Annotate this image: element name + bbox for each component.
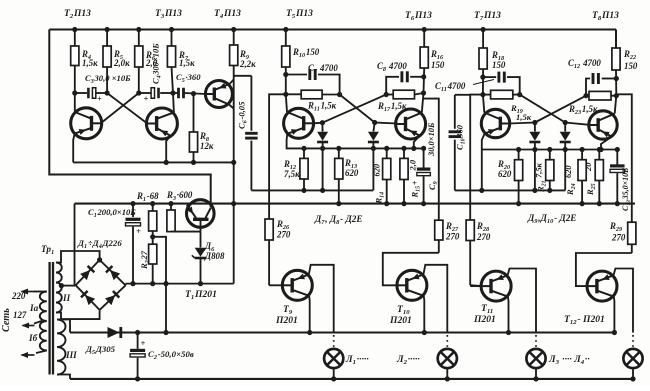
capacitor C13	[616, 150, 618, 165]
transistor T4	[205, 81, 232, 108]
svg-text:20: 20	[583, 162, 593, 172]
capacitor C10 coupling	[454, 95, 456, 129]
zener D6	[200, 232, 202, 248]
svg-text:П201: П201	[473, 314, 496, 325]
resistor R9	[233, 30, 235, 46]
svg-text:2,0: 2,0	[408, 159, 418, 171]
wire stage2 output left to R28	[470, 95, 483, 220]
capacitor C4	[151, 88, 154, 99]
resistor R3	[170, 204, 172, 210]
resistor R4	[74, 30, 76, 47]
wire tap Ib bottom	[36, 351, 47, 354]
svg-text:2,2к: 2,2к	[239, 59, 256, 69]
resistor R8	[193, 94, 195, 132]
wire T4 collector join	[229, 105, 234, 109]
wire T7 base	[509, 123, 535, 124]
transistor T9	[282, 270, 312, 300]
svg-text:+: +	[141, 338, 146, 348]
capacitor C8	[410, 76, 424, 78]
wire T5 emitter down and stage line	[287, 134, 424, 149]
wire T3 emitter down	[166, 136, 170, 163]
wire stub to C6	[234, 75, 252, 77]
resistor R2	[152, 237, 154, 244]
resistor R23	[586, 95, 589, 97]
wire II mid tap to bridge left corner	[61, 285, 76, 287]
svg-text:Т8 П13: Т8 П13	[592, 11, 619, 22]
svg-text:Сеть: Сеть	[1, 308, 12, 332]
wire base tee to R3	[171, 231, 201, 233]
svg-text:+: +	[144, 94, 149, 104]
wire upper bus stage2	[455, 189, 565, 191]
svg-text:2,0к: 2,0к	[113, 58, 130, 68]
svg-text:Т2 П13: Т2 П13	[64, 9, 91, 20]
wire T4 emitter join	[230, 80, 234, 85]
wire T3 base cross to R5 node	[107, 93, 147, 123]
wire T2 collector up	[74, 93, 76, 113]
winding III	[57, 320, 66, 375]
lamp L1	[333, 335, 335, 348]
resistor R27	[435, 220, 443, 240]
wire stage2 emitter line	[482, 149, 618, 151]
svg-text:270: 270	[611, 233, 626, 243]
lamp L2	[446, 335, 448, 348]
diode D7	[321, 123, 323, 132]
svg-text:Л1 ·····: Л1 ·····	[345, 354, 369, 366]
wire C4 left	[139, 92, 151, 94]
svg-text:12к: 12к	[200, 141, 214, 151]
wire R1R2 junction over to lamp rail column	[153, 237, 166, 333]
capacitor C1	[132, 204, 134, 217]
transistor T5	[284, 108, 314, 138]
resistor R18	[482, 30, 484, 49]
svg-text:Т6 П13: Т6 П13	[405, 11, 432, 22]
wire T6 base	[375, 123, 398, 124]
diode D5 in series	[108, 327, 120, 338]
capacitor C2	[137, 333, 139, 349]
svg-text:7,5к: 7,5к	[284, 169, 300, 179]
wire III top to lamp rail	[57, 320, 70, 333]
resistor R15	[403, 148, 405, 158]
wire T10 base jog from R27	[383, 253, 439, 285]
wire T6 emitter down	[414, 136, 420, 149]
resistor R13	[338, 148, 340, 158]
svg-text:Т4 П13: Т4 П13	[214, 9, 241, 20]
wire cross R23 to T7 base	[535, 96, 586, 123]
transistor T12	[587, 271, 617, 301]
wire cross R17 to T5 base	[322, 95, 386, 123]
diode D1	[80, 266, 94, 280]
svg-text:Л3 ···· Л4 ··: Л3 ···· Л4 ··	[548, 354, 590, 366]
svg-text:620: 620	[345, 168, 359, 178]
wire C5 to T4 base	[185, 93, 206, 94]
wire cross R19 to T8 base	[520, 95, 566, 123]
diode D4	[105, 291, 119, 305]
wire C10 top to stage2 node	[455, 94, 470, 96]
svg-text:Т7 П13: Т7 П13	[474, 11, 501, 22]
capacitor C9	[423, 148, 425, 168]
svg-text:150: 150	[431, 60, 445, 70]
wire II top to bridge top corner	[56, 251, 100, 263]
wire multivib top node wire	[75, 92, 87, 94]
wire tap 127	[34, 321, 42, 324]
wire T7 collector up	[483, 95, 484, 113]
transistor T6	[396, 109, 426, 139]
svg-text:270: 270	[476, 232, 491, 242]
svg-text:1,5к: 1,5к	[516, 112, 532, 122]
wire bottom rail	[70, 378, 635, 380]
resistor R11	[286, 93, 301, 95]
svg-text:270: 270	[276, 230, 291, 240]
wire stage2 output right to R29	[616, 94, 632, 222]
svg-text:П201: П201	[275, 315, 298, 326]
resistor R26	[265, 219, 273, 240]
wire II bottom to bridge bottom corner	[56, 310, 100, 319]
wire lamp rail	[70, 331, 615, 333]
resistor R22	[612, 48, 620, 70]
wire T11 base	[470, 284, 481, 287]
svg-text:1,5к: 1,5к	[179, 58, 195, 68]
svg-text:+: +	[136, 226, 141, 236]
svg-text:Iа: Iа	[29, 303, 39, 313]
wire T2 emitter down	[73, 134, 74, 163]
svg-text:II: II	[62, 293, 71, 303]
wire III bottom to bottom rail	[57, 375, 70, 379]
diode D8	[373, 123, 374, 132]
svg-text:220: 220	[11, 291, 26, 301]
wire emitter bus	[73, 161, 234, 163]
svg-text:П201: П201	[389, 315, 412, 326]
wire T8 collector up	[615, 96, 617, 114]
resistor R19	[483, 94, 491, 96]
transistor T10	[397, 270, 427, 300]
svg-text:Л2 ·····: Л2 ·····	[396, 354, 420, 366]
wire cross R11 to T6 base	[340, 95, 375, 123]
capacitor C3	[87, 88, 90, 99]
winding II	[56, 263, 62, 313]
capacitor C7	[286, 74, 307, 76]
capacitor C5	[173, 92, 178, 94]
bridge rectifier D1-D4	[76, 260, 100, 285]
transistor T11	[481, 271, 511, 301]
capacitor C12	[602, 78, 617, 80]
wire T7 emitter down to bus	[482, 134, 485, 191]
lamp L4	[632, 335, 634, 348]
transformer core	[48, 262, 50, 375]
svg-text:Д808: Д808	[204, 251, 225, 261]
wire tap 220	[34, 291, 47, 293]
wire T5 base	[314, 122, 323, 125]
svg-text:150: 150	[624, 61, 638, 71]
svg-text:Т1 П201: Т1 П201	[185, 289, 217, 301]
wire top supply rail	[49, 28, 616, 30]
wire stab bottom rail	[126, 283, 234, 285]
svg-text:30,0×10Б: 30,0×10Б	[426, 122, 436, 157]
wire main bus	[75, 203, 636, 205]
capacitor C11	[483, 76, 496, 78]
svg-text:7,5к: 7,5к	[534, 162, 544, 178]
transistor T8	[589, 111, 617, 139]
svg-text:620: 620	[372, 163, 382, 176]
wire bridge right corner to stab rail	[125, 284, 127, 286]
wire T1 base down	[200, 219, 202, 231]
resistor R29	[628, 222, 636, 244]
wire T5 collector up	[286, 94, 287, 112]
wire top rail right end down to R22	[615, 30, 617, 49]
wire stage1 output left to R26	[269, 94, 286, 219]
transistor T1	[187, 200, 215, 228]
resistor R25	[598, 150, 600, 160]
svg-text:620: 620	[563, 165, 573, 178]
diode D9	[534, 123, 536, 132]
wire T6 collector up	[422, 93, 424, 113]
svg-text:620: 620	[498, 169, 512, 179]
capacitor C6	[250, 76, 252, 131]
wire upper bus stage1	[251, 189, 373, 191]
wire stage1 output right to R27	[424, 99, 439, 221]
resistor R5	[106, 30, 108, 47]
transistor T7	[481, 109, 509, 137]
resistor R6	[138, 30, 140, 47]
resistor R24	[581, 150, 583, 160]
svg-text:127: 127	[13, 310, 27, 320]
resistor R16	[423, 30, 425, 48]
wire T2 base cross to R6 node	[102, 93, 139, 123]
transistor T2	[71, 108, 102, 139]
svg-text:270: 270	[445, 232, 460, 242]
transistor T3	[146, 108, 177, 139]
resistor R17	[386, 94, 393, 96]
svg-text:Iб: Iб	[28, 333, 38, 343]
resistor R1	[152, 204, 154, 211]
svg-text:Т3 П13: Т3 П13	[155, 9, 182, 20]
lamp L3	[535, 335, 537, 348]
resistor R21	[549, 150, 551, 160]
resistor R20	[518, 150, 520, 160]
svg-text:III: III	[65, 350, 77, 360]
wire T3 collector up	[172, 93, 175, 113]
diode D2	[106, 266, 120, 280]
resistor R7	[171, 30, 173, 47]
diode D10	[564, 123, 566, 132]
resistor R10	[285, 30, 287, 47]
svg-text:Т5 П13: Т5 П13	[286, 9, 313, 20]
resistor R28	[466, 220, 474, 241]
wire T8 emitter down	[601, 137, 612, 150]
wire T8 base	[565, 123, 589, 125]
wire R9 column down to bus	[233, 66, 235, 204]
diode D3	[81, 291, 95, 305]
resistor R12	[303, 148, 305, 158]
wire stab right column	[233, 204, 235, 284]
winding Ia Ib primary	[40, 292, 47, 351]
wire C4 right to T3 collector	[160, 92, 173, 94]
svg-text:+: +	[97, 94, 102, 104]
wire left border from rail to T1 collector line	[49, 30, 210, 208]
wire T12 base jog from R29	[576, 253, 632, 286]
wire stab rail left end down to bridge left corner	[74, 204, 76, 285]
svg-text:1,5к: 1,5к	[82, 58, 98, 68]
svg-text:150: 150	[492, 60, 506, 70]
resistor R14	[386, 148, 388, 158]
